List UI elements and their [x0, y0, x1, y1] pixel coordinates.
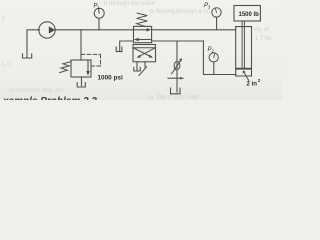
svg-text:1000 psi: 1000 psi	[98, 75, 123, 82]
svg-text:2 in: 2 in	[247, 81, 258, 88]
svg-text:is flowing through a ho: is flowing through a ho	[150, 9, 211, 15]
svg-text:y: y	[2, 16, 5, 22]
svg-text:1 T'he: 1 T'he	[255, 36, 272, 42]
svg-text:xample Problem 2.3: xample Problem 2.3	[2, 96, 97, 100]
svg-text:vity of: vity of	[253, 27, 269, 33]
svg-text:1 C: 1 C	[2, 62, 12, 68]
svg-text:1e pressure drop acr: 1e pressure drop acr	[8, 88, 63, 94]
svg-text:n through the valve: n through the valve	[104, 1, 156, 7]
svg-text:m. The C is 0. Find: m. The C is 0. Find	[148, 95, 199, 100]
svg-text:1500 lb: 1500 lb	[239, 12, 260, 18]
